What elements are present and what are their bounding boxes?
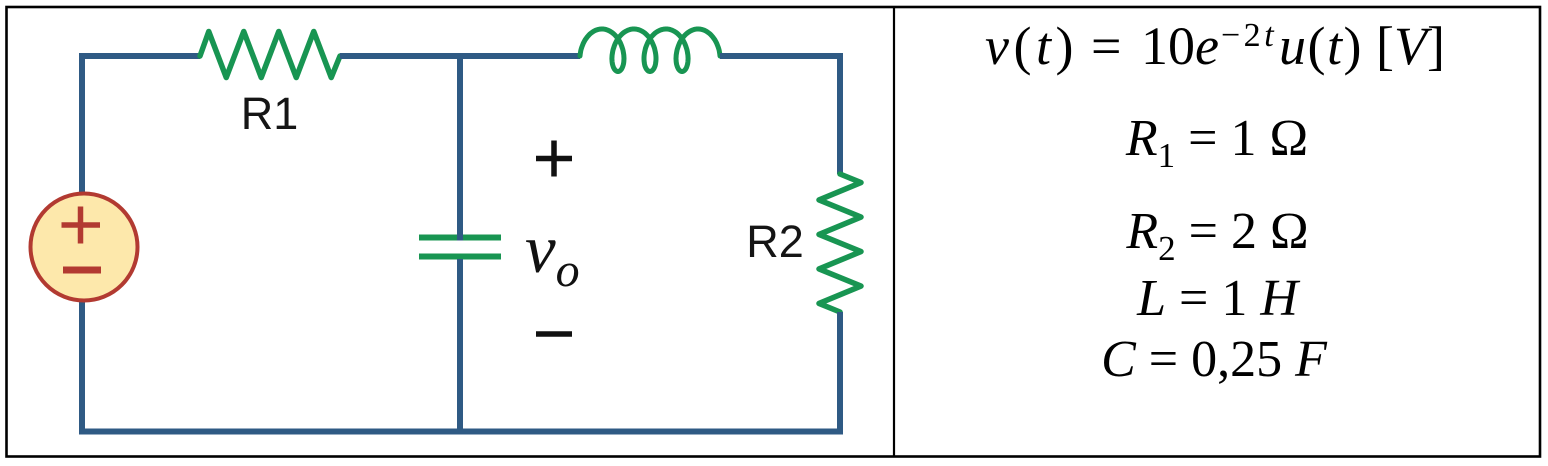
equation line 1: v(t) = 10e^-2t u(t) [V] [985,16,1445,76]
svg-text:=: = [1091,16,1121,76]
inductor L coil [580,29,720,72]
output minus sign [536,331,572,337]
svg-text:R1 = 1 Ω: R1 = 1 Ω [1125,110,1308,175]
voltage source minus sign [63,267,101,274]
svg-text:R1: R1 [241,88,299,139]
wire: capacitor bottom plate down to bottom wire [457,259,463,431]
resistor R1 zigzag [200,32,340,78]
svg-text:L = 1 H: L = 1 H [1136,270,1300,327]
voltage source circle [31,194,138,301]
svg-text:vo: vo [525,211,580,297]
wire: left vertical from source up to top-left corner [79,56,85,194]
resistor R2 zigzag (vertical) [819,174,861,312]
wire: middle branch from top junction down to capacitor top plate [457,56,463,241]
svg-text:−2t: −2t [1221,17,1277,54]
wire: R1 to inductor across top of middle branch [340,53,580,59]
wire: R2 bottom, down and along bottom to source bottom [82,300,840,432]
output plus sign [536,141,572,177]
voltage source plus sign [62,207,101,244]
svg-text:R2: R2 [746,216,804,267]
capacitor C top plate [419,235,501,241]
svg-text:v(t): v(t) [985,16,1078,76]
svg-text:R2 = 2 Ω: R2 = 2 Ω [1125,203,1308,268]
svg-text:C = 0,25 F: C = 0,25 F [1101,331,1328,388]
wire: inductor to top-right corner, down to R2 top [720,56,840,174]
svg-text:[V]: [V] [1376,16,1445,76]
capacitor C bottom plate [419,254,501,260]
wire: top-left horizontal to R1 [79,53,200,59]
divider between circuit cell and data cell [893,7,895,456]
svg-text:u(t): u(t) [1279,16,1363,76]
svg-text:10e: 10e [1141,16,1219,76]
